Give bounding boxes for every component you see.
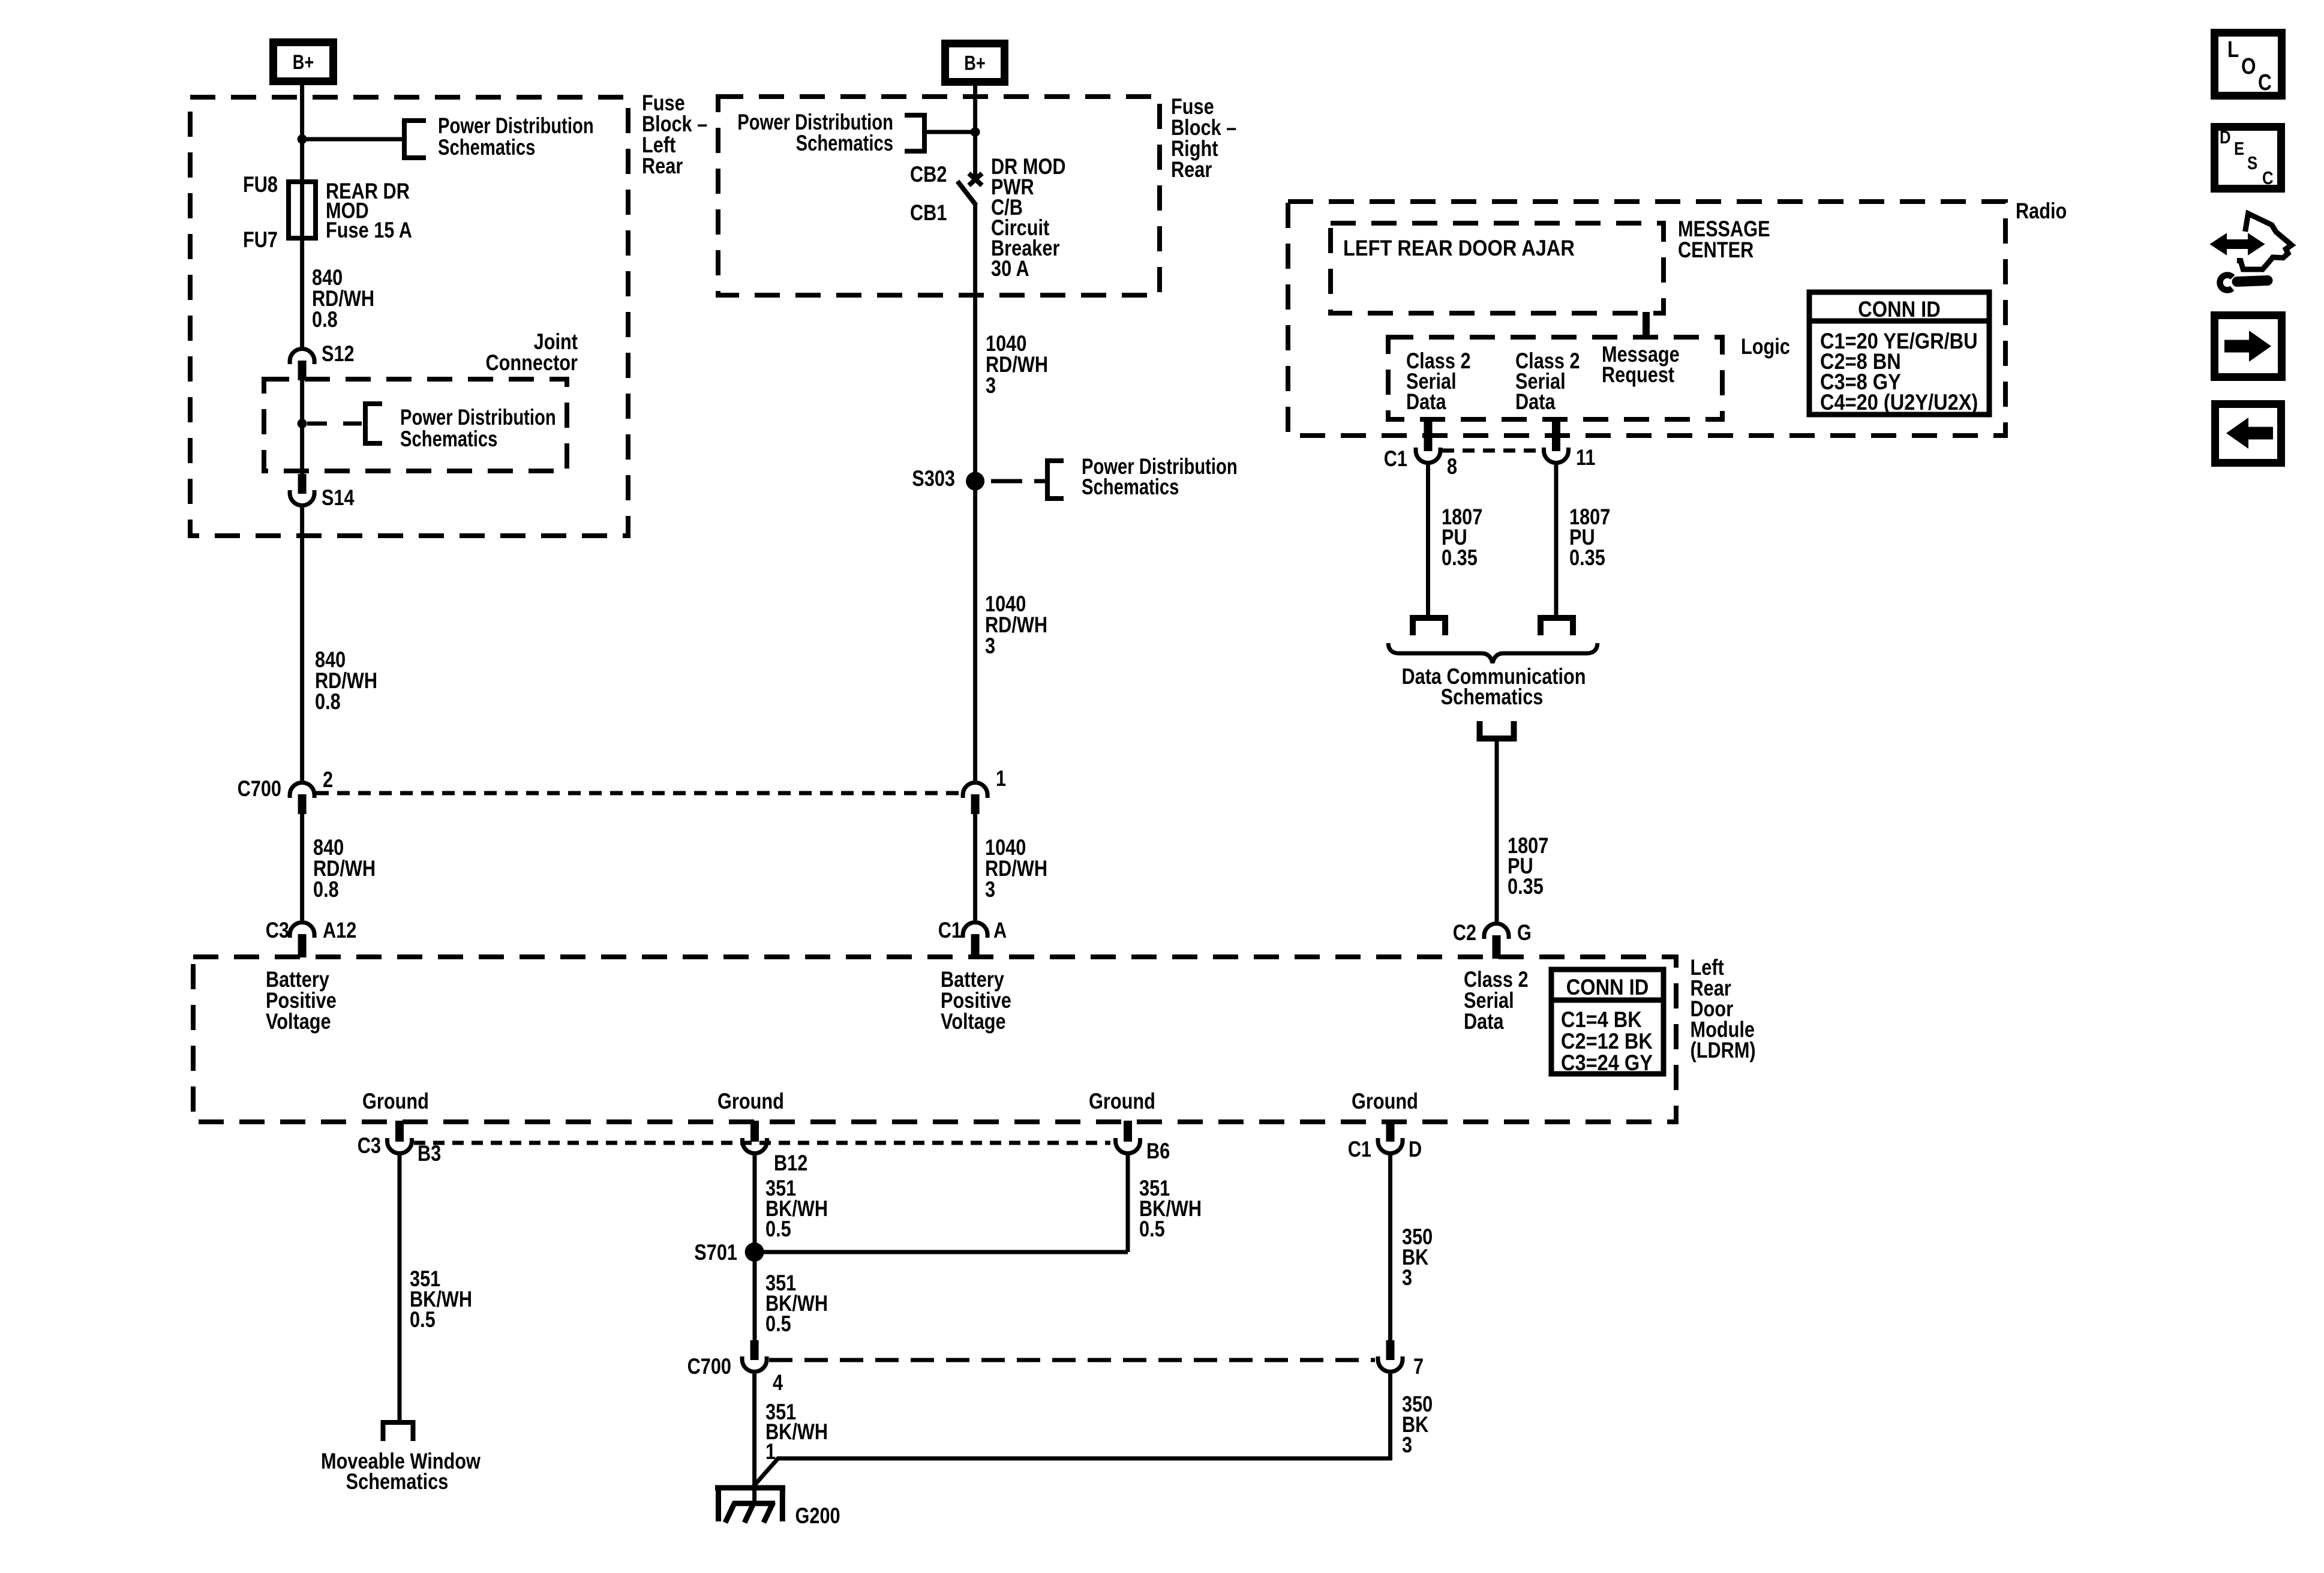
svg-text:JointConnector: JointConnector (485, 329, 578, 375)
connector C700 pin 2 (290, 782, 314, 798)
svg-text:351BK/WH0.5: 351BK/WH0.5 (765, 1176, 828, 1241)
svg-text:C700: C700 (238, 776, 281, 801)
svg-text:351BK/WH0.5: 351BK/WH0.5 (765, 1271, 828, 1336)
LDRM connector pin B12 (743, 1138, 767, 1154)
svg-text:C3: C3 (358, 1133, 381, 1158)
svg-text:8: 8 (1447, 454, 1457, 479)
svg-text:B+: B+ (964, 52, 986, 75)
wire radio pin 8 to terminal (1426, 465, 1430, 616)
svg-text:350BK3: 350BK3 (1402, 1392, 1433, 1457)
svg-text:Class 2SerialData: Class 2SerialData (1406, 349, 1471, 414)
svg-text:FuseBlock –RightRear: FuseBlock –RightRear (1171, 94, 1236, 182)
bracket to Power Distribution Schematics (left) (404, 121, 426, 158)
junction node on breaker feed (971, 127, 980, 137)
dash link S303 a (991, 479, 1022, 484)
svg-text:REAR DRMODFuse 15 A: REAR DRMODFuse 15 A (326, 179, 412, 242)
svg-text:1807PU0.35: 1807PU0.35 (1508, 833, 1548, 899)
svg-text:C: C (2262, 168, 2274, 189)
svg-text:Class 2SerialData: Class 2SerialData (1515, 349, 1580, 414)
svg-text:D: D (2220, 127, 2231, 148)
svg-text:4: 4 (773, 1370, 783, 1395)
svg-text:A12: A12 (323, 918, 356, 942)
joint connector dashed box (264, 379, 567, 471)
svg-text:G: G (1517, 920, 1532, 945)
svg-text:CONN ID: CONN ID (1858, 297, 1940, 322)
svg-text:S: S (2247, 153, 2257, 174)
forward arrow (2224, 340, 2250, 353)
svg-text:840RD/WH0.8: 840RD/WH0.8 (315, 647, 377, 714)
svg-text:7: 7 (1413, 1354, 1424, 1379)
svg-text:Power DistributionSchematics: Power DistributionSchematics (438, 114, 594, 160)
LDRM connector pin B6 (1115, 1138, 1140, 1154)
svg-text:Class 2SerialData: Class 2SerialData (1464, 967, 1529, 1034)
svg-text:CB2: CB2 (910, 162, 947, 187)
svg-text:O: O (2241, 53, 2256, 79)
splice S303 (966, 472, 984, 491)
svg-text:1807PU0.35: 1807PU0.35 (1442, 505, 1482, 570)
svg-text:11: 11 (1576, 445, 1595, 470)
wire C700-2 to LDRM A12 (300, 814, 304, 920)
wire breaker to C700 pin 1 (973, 205, 977, 781)
wire S12 to S14 (300, 380, 304, 474)
fuse block right rear dashed box (718, 97, 1160, 295)
splice S701 (745, 1242, 764, 1262)
svg-text:C2: C2 (1453, 920, 1476, 945)
svg-text:Power DistributionSchematics: Power DistributionSchematics (400, 406, 556, 452)
svg-text:Ground: Ground (1089, 1089, 1155, 1113)
svg-text:Ground: Ground (717, 1089, 784, 1113)
dashed connector line C700 row 1 (316, 791, 960, 795)
bracket to Power Distribution Schematics (S303) (1047, 461, 1064, 499)
svg-text:B+: B+ (293, 50, 314, 74)
vehicle repair icon wrench (2220, 275, 2232, 290)
svg-text:C700: C700 (687, 1354, 731, 1379)
svg-text:LEFT REAR DOOR AJAR: LEFT REAR DOOR AJAR (1343, 236, 1575, 260)
svg-text:L: L (2227, 37, 2239, 62)
svg-text:Ground: Ground (1352, 1089, 1418, 1113)
terminal from data comm schematics (1480, 721, 1514, 739)
svg-text:351BK/WH0.5: 351BK/WH0.5 (1139, 1176, 1202, 1241)
svg-text:FU8: FU8 (243, 172, 278, 197)
logic dashed box (1388, 337, 1722, 419)
svg-text:C: C (2258, 70, 2272, 95)
svg-text:A: A (993, 918, 1007, 942)
terminal to data comm (right) (1541, 618, 1573, 635)
svg-text:2: 2 (323, 767, 333, 792)
breaker contact X (969, 173, 982, 185)
svg-text:840RD/WH0.8: 840RD/WH0.8 (313, 835, 376, 902)
svg-text:S14: S14 (322, 485, 355, 510)
svg-text:C3: C3 (266, 918, 289, 942)
dotted connector line radio C1 (1442, 449, 1542, 453)
svg-text:C1=20 YE/GR/BUC2=8 BNC3=8 GYC4: C1=20 YE/GR/BUC2=8 BNC3=8 GYC4=20 (U2Y/U… (1820, 329, 1978, 415)
connector C700 pin 1 (963, 783, 987, 798)
DESC navigation box (2215, 127, 2281, 189)
dotted connector line ground row (414, 1141, 1110, 1145)
radio dashed box (1288, 202, 2005, 436)
left rear door ajar message box (1331, 223, 1664, 313)
terminal to data comm (left) (1413, 618, 1445, 635)
connector C2 pin G at LDRM (1484, 923, 1509, 939)
svg-text:BatteryPositiveVoltage: BatteryPositiveVoltage (266, 967, 337, 1034)
wire B+ down through fuse FU8/FU7 (300, 85, 304, 347)
wire junction to bracket (right fuse block) (924, 130, 975, 134)
LDRM CONN ID table box (1551, 969, 1664, 1074)
svg-text:S12: S12 (322, 341, 355, 366)
radio CONN ID table box (1809, 292, 1989, 415)
svg-text:B6: B6 (1146, 1139, 1170, 1163)
wire S701 to C700 pin 4 (753, 1252, 757, 1340)
svg-text:Schematics: Schematics (346, 1469, 449, 1494)
wire S701 to B6 branch (755, 1250, 1128, 1254)
svg-text:1040RD/WH3: 1040RD/WH3 (985, 592, 1047, 658)
svg-text:FuseBlock –LeftRear: FuseBlock –LeftRear (642, 91, 707, 178)
connector C1 pin A at LDRM (963, 923, 987, 938)
left rear door module dashed box (193, 957, 1676, 1122)
dash link 2 in joint connector (343, 422, 362, 426)
svg-text:C1: C1 (938, 918, 962, 942)
connector C700 pin 4 (742, 1356, 767, 1372)
back arrow box (2215, 404, 2281, 463)
splice connector S12 (290, 349, 314, 364)
wire B3 to moveable window (398, 1155, 402, 1420)
svg-text:G200: G200 (795, 1503, 840, 1528)
svg-text:MESSAGECENTER: MESSAGECENTER (1678, 217, 1770, 262)
wire S14 down to C700 pin 2 (300, 508, 304, 781)
fuse block left rear dashed box (190, 97, 628, 536)
junction node on B+ feed (298, 134, 307, 144)
svg-text:MessageRequest: MessageRequest (1602, 342, 1680, 387)
svg-text:DR MODPWRC/BCircuitBreaker30 A: DR MODPWRC/BCircuitBreaker30 A (991, 154, 1066, 281)
dash link S303 b (1034, 479, 1045, 484)
stub message box to logic box (1643, 312, 1650, 338)
connector C3 pin A12 at LDRM (290, 922, 314, 938)
wire C700-1 to LDRM A (973, 814, 977, 920)
bracket to Power Distribution Schematics (right fuse block) (905, 115, 924, 151)
svg-text:Radio: Radio (2016, 199, 2067, 223)
ground G200 symbol (715, 1485, 785, 1491)
wire data comm to C2 pin G (1495, 739, 1499, 921)
svg-text:C1: C1 (1384, 446, 1407, 471)
svg-text:Ground: Ground (362, 1089, 429, 1113)
svg-text:351BK/WH0.5: 351BK/WH0.5 (410, 1266, 472, 1332)
forward arrow box (2215, 316, 2282, 377)
radio connector C1 pin 11 (1544, 448, 1569, 463)
wire C700-4 to ground G200 (752, 1374, 756, 1503)
wire B12 to S701 (753, 1155, 757, 1252)
svg-text:Power DistributionSchematics: Power DistributionSchematics (1082, 455, 1238, 500)
svg-text:B3: B3 (418, 1141, 441, 1166)
svg-text:Logic: Logic (1741, 334, 1790, 359)
LDRM connector C1 pin D (1378, 1138, 1403, 1154)
wire radio pin 11 to terminal (1554, 465, 1559, 616)
svg-text:S303: S303 (912, 466, 955, 491)
svg-text:E: E (2234, 139, 2244, 160)
bracket to Power Distribution Schematics (joint connector) (365, 404, 382, 443)
B+ battery positive terminal 2 (945, 44, 1005, 82)
wire D to C700 pin 7 (1388, 1155, 1392, 1340)
circuit breaker blade (957, 181, 976, 205)
connector C700 pin 7 (1378, 1356, 1403, 1372)
svg-text:C1: C1 (1348, 1137, 1371, 1161)
svg-text:D: D (1409, 1137, 1422, 1161)
terminal to moveable window schematics (383, 1422, 413, 1441)
vehicle repair icon car outline (2237, 214, 2292, 269)
svg-text:351BK/WH1: 351BK/WH1 (765, 1400, 828, 1464)
svg-text:1040RD/WH3: 1040RD/WH3 (985, 835, 1047, 902)
dashed connector line C700 row 2 (769, 1358, 1375, 1362)
svg-text:Power DistributionSchematics: Power DistributionSchematics (737, 110, 893, 156)
svg-text:B12: B12 (774, 1151, 807, 1175)
svg-text:CB1: CB1 (910, 200, 947, 225)
svg-text:1040RD/WH3: 1040RD/WH3 (986, 331, 1048, 398)
splice connector S14 (290, 490, 314, 506)
vehicle repair icon double arrow (2224, 239, 2251, 249)
wire B6 down (1126, 1155, 1130, 1252)
B+ battery positive terminal 1 (274, 43, 334, 82)
LOC navigation box (2215, 33, 2282, 96)
junction in joint connector (298, 419, 307, 428)
svg-text:FU7: FU7 (243, 227, 278, 252)
LDRM connector C3 pin B3 (388, 1138, 412, 1154)
svg-text:C1=4 BKC2=12 BKC3=24 GY: C1=4 BKC2=12 BKC3=24 GY (1561, 1007, 1653, 1075)
wire junction to bracket (302, 137, 402, 142)
fuse REAR DR MOD 15A (289, 182, 316, 238)
svg-text:CONN ID: CONN ID (1566, 975, 1649, 999)
svg-text:Schematics: Schematics (1441, 685, 1544, 709)
wire B+ down to breaker (973, 86, 977, 178)
svg-text:S701: S701 (694, 1240, 737, 1265)
dash link 1 in joint connector (307, 422, 327, 426)
svg-text:LeftRearDoorModule(LDRM): LeftRearDoorModule(LDRM) (1691, 955, 1756, 1062)
svg-text:BatteryPositiveVoltage: BatteryPositiveVoltage (941, 967, 1011, 1034)
svg-text:1807PU0.35: 1807PU0.35 (1569, 505, 1610, 570)
radio connector C1 pin 8 (1416, 448, 1440, 463)
wire C700-7 to ground G200 (755, 1374, 1391, 1484)
svg-text:840RD/WH0.8: 840RD/WH0.8 (312, 265, 374, 332)
svg-text:350BK3: 350BK3 (1402, 1224, 1433, 1290)
svg-text:1: 1 (996, 766, 1006, 791)
brace under data communication terminals (1388, 643, 1598, 663)
back arrow (2247, 427, 2273, 440)
